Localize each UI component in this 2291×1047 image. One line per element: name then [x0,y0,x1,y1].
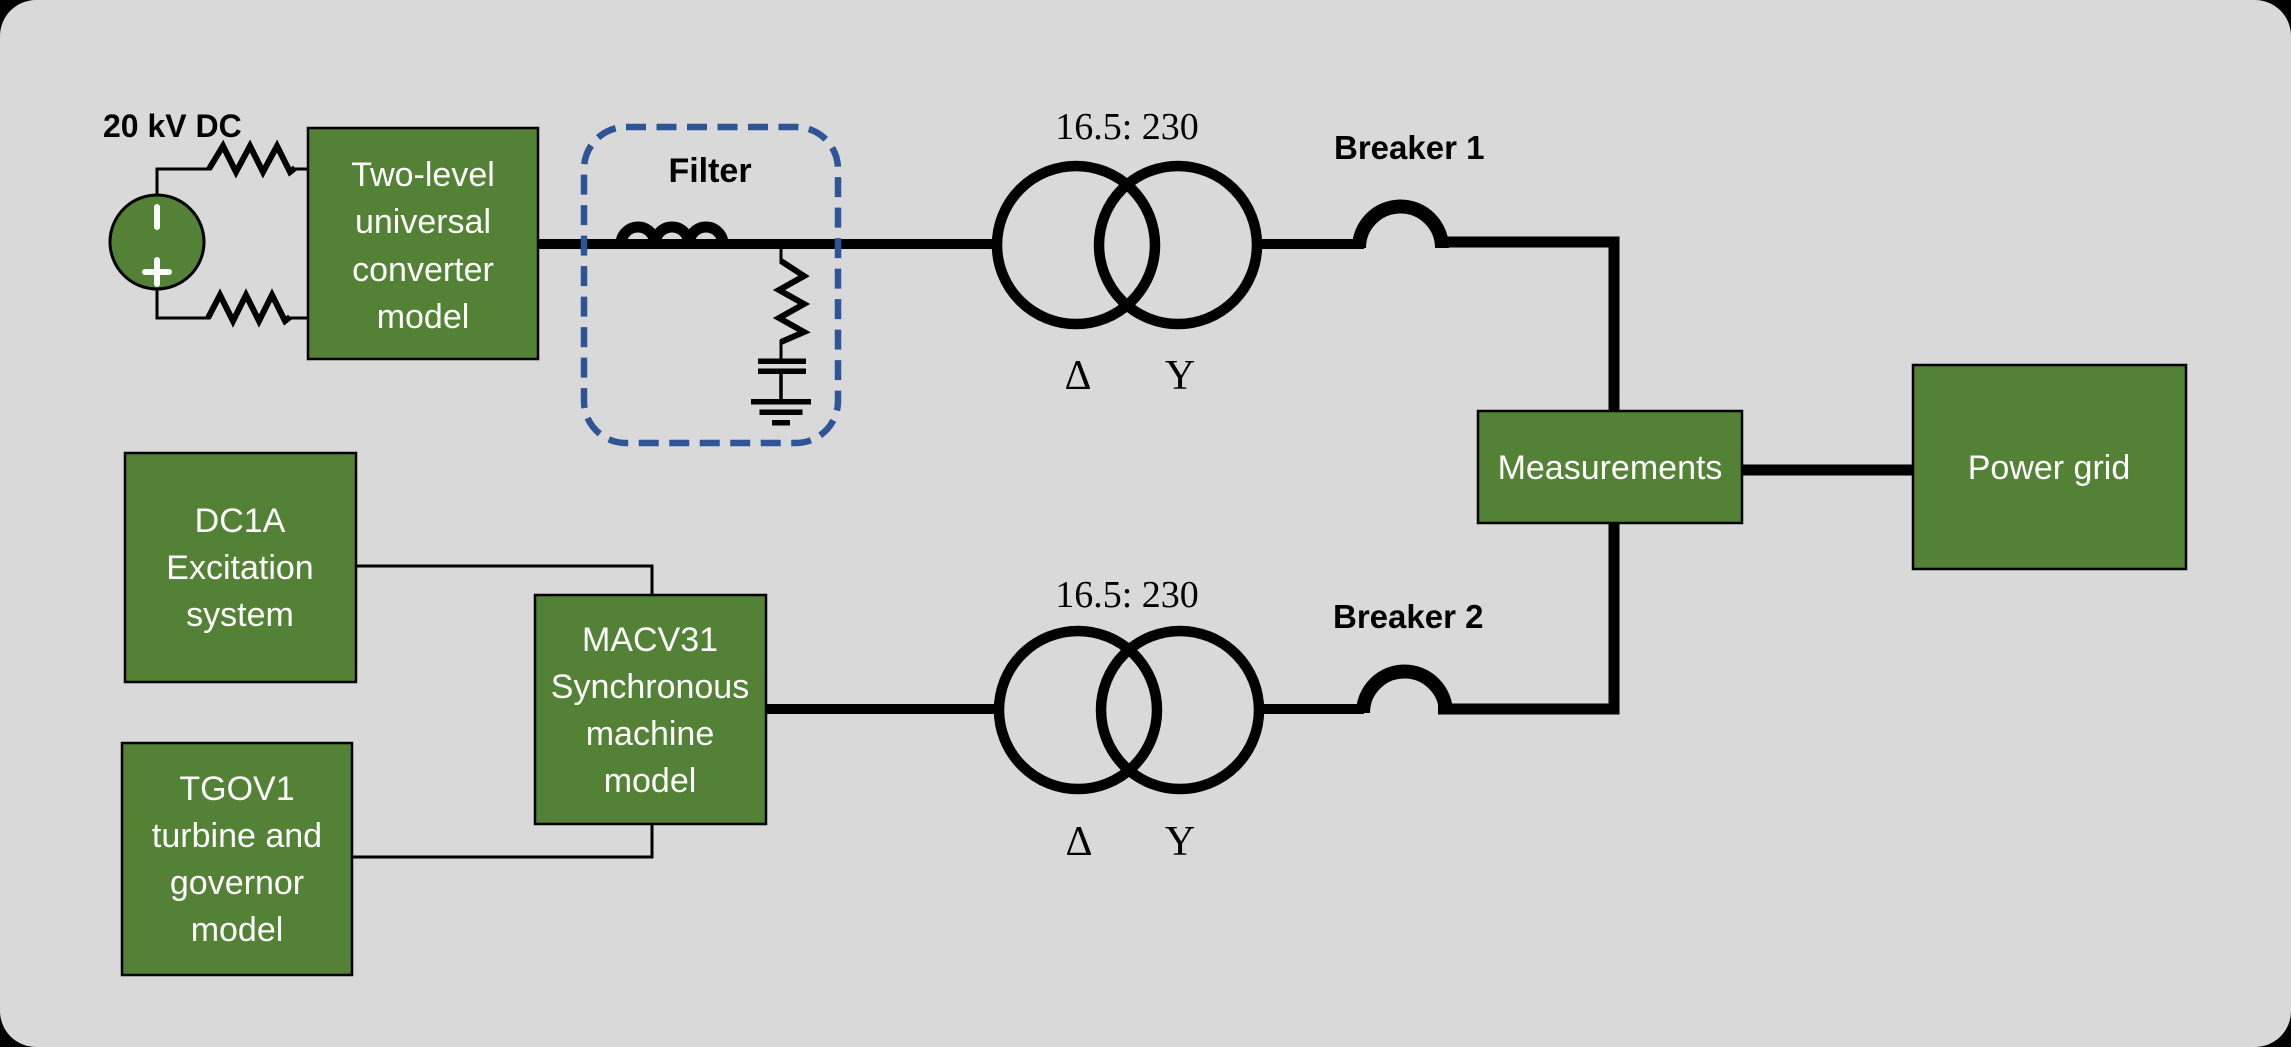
svg-text:Breaker 2: Breaker 2 [1333,598,1483,635]
capacitor C1 [758,359,806,401]
svg-text:Filter: Filter [668,152,751,190]
dc source V1 [110,195,204,289]
power grid block [1913,365,2186,569]
wire converter to transformer 1 [538,239,997,249]
svg-text:converter: converter [352,251,494,289]
transformer T2 [994,626,1264,794]
svg-text:universal: universal [355,203,491,241]
wire dc source top lead [157,169,211,195]
wire machine to transformer 2 [766,704,997,714]
ground [751,399,811,426]
svg-text:turbine and: turbine and [152,817,322,855]
filter box dashed [584,127,838,443]
wire dc source bottom lead [157,289,210,318]
svg-text:machine: machine [586,715,715,753]
svg-text:model: model [604,762,697,800]
TGOV1 block [122,743,352,975]
svg-text:Power grid: Power grid [1968,449,2131,487]
wire breaker 1 to measurements [1438,242,1614,411]
wire DC1A to machine [356,566,652,596]
converter block [308,128,538,359]
resistor R2 [208,295,290,321]
resistor R1 [209,146,295,172]
svg-text:Excitation: Excitation [166,549,313,587]
svg-text:model: model [191,911,284,949]
resistor R3 (filter damping) [780,248,783,263]
svg-text:16.5: 230: 16.5: 230 [1055,574,1199,616]
svg-text:Y: Y [1165,353,1195,399]
svg-text:model: model [377,298,470,336]
svg-text:Synchronous: Synchronous [551,668,749,706]
svg-text:system: system [186,596,294,634]
svg-text:governor: governor [170,864,304,902]
wire breaker 2 up to measurements [1438,523,1614,709]
inductor L1 [621,227,723,244]
wire measurements to power grid [1742,465,1913,476]
svg-text:16.5: 230: 16.5: 230 [1055,106,1199,148]
wire R2 to converter [288,317,308,320]
breaker 2 arc [1363,672,1446,714]
svg-text:20 kV DC: 20 kV DC [103,108,242,144]
svg-text:TGOV1: TGOV1 [179,770,294,808]
svg-text:Breaker 1: Breaker 1 [1334,129,1484,166]
svg-text:Y: Y [1165,819,1195,865]
measurements block [1478,411,1742,523]
wire TGOV1 to machine [352,823,652,857]
svg-text:DC1A: DC1A [195,502,286,540]
transformer T1 [992,161,1262,329]
DC1A excitation block [125,453,356,682]
svg-text:Measurements: Measurements [1498,449,1723,487]
svg-text:Two-level: Two-level [351,156,495,194]
svg-text:Δ: Δ [1064,353,1091,399]
breaker 1 arc [1359,207,1442,249]
wire transformer 1 to breaker 1 [1262,239,1364,249]
svg-text:MACV31: MACV31 [582,621,718,659]
svg-text:Δ: Δ [1065,819,1092,865]
synchronous machine block [535,595,766,824]
wire transformer 2 to breaker 2 [1264,704,1364,714]
wire R1 to converter [293,168,308,171]
